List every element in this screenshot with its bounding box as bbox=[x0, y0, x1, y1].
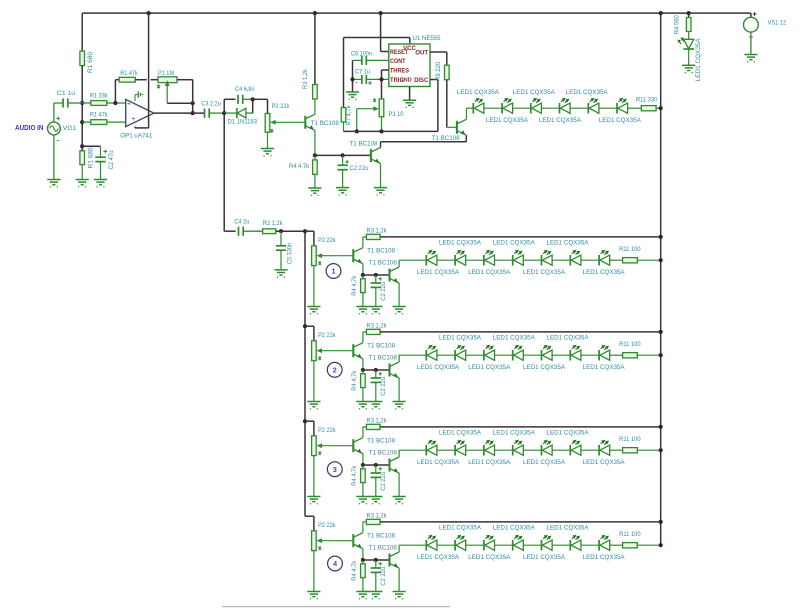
transistor T1 BC108 (row 4 B) bbox=[369, 544, 399, 568]
LED LED1 CQX35A (row 4 #6) bbox=[570, 535, 599, 551]
transistor T1 BC108 (row 1 B) bbox=[369, 259, 399, 283]
wire bus branch row 1 bbox=[303, 229, 314, 246]
node detector input bbox=[222, 111, 226, 115]
svg-text:R4 560: R4 560 bbox=[673, 15, 680, 34]
svg-text:VS1 12: VS1 12 bbox=[768, 19, 787, 26]
IC U1 NE555 bbox=[389, 35, 441, 86]
svg-text:T1 BC108: T1 BC108 bbox=[432, 135, 460, 142]
transistor T1 BC108 (tone driver) bbox=[305, 114, 339, 130]
resistor R4 4,7k (row 1) bbox=[351, 275, 365, 307]
svg-text:LED1 CQX35A: LED1 CQX35A bbox=[566, 89, 608, 96]
LED LED1 CQX35A (row 1 #3) bbox=[484, 250, 513, 266]
node feedback junction bbox=[113, 101, 117, 105]
svg-text:LED1 CQX35A: LED1 CQX35A bbox=[417, 459, 459, 466]
capacitor C2 22u (row 3) bbox=[371, 465, 387, 497]
svg-text:LED1 CQX35A: LED1 CQX35A bbox=[439, 430, 481, 437]
svg-text:LED1 CQX35A: LED1 CQX35A bbox=[513, 89, 555, 96]
wire R3 to rail row 1 bbox=[380, 235, 663, 239]
svg-text:C7 1u: C7 1u bbox=[355, 68, 370, 75]
svg-text:OUT: OUT bbox=[415, 50, 428, 57]
wire op-amp V- supply from rail bbox=[135, 11, 151, 128]
svg-text:T1 BC108: T1 BC108 bbox=[311, 120, 339, 127]
potentiometer P2 22k (row 1) bbox=[312, 237, 336, 306]
ground emitter B row 4 bbox=[393, 592, 406, 600]
ground power LED bbox=[682, 65, 695, 73]
LED LED1 CQX35A (row 3 #3) bbox=[484, 440, 513, 456]
wire base line row 1 bbox=[363, 273, 389, 277]
LED LED1 CQX35A (row 1 #5) bbox=[542, 250, 571, 266]
wire 555 GND pin bbox=[409, 87, 411, 101]
wire collector A to R3 row 1 bbox=[363, 237, 367, 248]
capacitor C2 22u (top) bbox=[337, 155, 368, 187]
transistor T1 BC108 (row 3 B) bbox=[369, 449, 399, 473]
capacitor C4 6,8n bbox=[235, 86, 255, 104]
svg-text:R4 4,7k: R4 4,7k bbox=[351, 275, 358, 296]
svg-text:C3 2,2u: C3 2,2u bbox=[201, 101, 221, 108]
wire node riser to C4 6,8n row bbox=[224, 99, 235, 113]
LED LED1 CQX35A (row 1 #6) bbox=[570, 250, 599, 266]
svg-text:+: + bbox=[131, 116, 135, 123]
wire THRES to P3 bbox=[379, 70, 388, 99]
wire collector A to R3 row 2 bbox=[363, 332, 367, 343]
svg-text:LED1 CQX35A: LED1 CQX35A bbox=[695, 38, 702, 81]
svg-text:C2 22u: C2 22u bbox=[380, 377, 387, 396]
LED LED1 CQX35A (row 2 #4) bbox=[513, 345, 542, 361]
wire rail drop to R3 1,2k (top) bbox=[313, 11, 317, 85]
labels LED row 4 below bbox=[417, 554, 625, 561]
svg-text:AUDIO IN: AUDIO IN bbox=[15, 123, 44, 132]
svg-text:C6 100n: C6 100n bbox=[351, 50, 372, 57]
resistor R1 680 (bottom) bbox=[80, 147, 95, 179]
svg-text:LED1 CQX35A: LED1 CQX35A bbox=[493, 240, 535, 247]
wire wiper to base row 2 bbox=[322, 350, 352, 352]
transistor T1 BC108 (row 1 A) bbox=[353, 247, 395, 263]
transistor T1 BC108 (row 2 A) bbox=[353, 342, 395, 358]
wire detector node down to filter row bbox=[224, 113, 236, 231]
labels LED row 2 above bbox=[439, 335, 589, 342]
svg-text:CONT: CONT bbox=[390, 58, 406, 65]
svg-text:LED1 CQX35A: LED1 CQX35A bbox=[523, 364, 565, 371]
svg-text:P2 22k: P2 22k bbox=[272, 103, 290, 110]
wire base line row 2 bbox=[363, 368, 389, 372]
transistor T1 BC108 (LED row driver) bbox=[432, 119, 467, 142]
wire +12V right rail bbox=[659, 11, 663, 545]
wire R2 to bus node bbox=[276, 229, 305, 233]
svg-text:LED1 CQX35A: LED1 CQX35A bbox=[439, 240, 481, 247]
resistor R7 4,7k bbox=[341, 105, 352, 131]
svg-text:T1 BC108: T1 BC108 bbox=[369, 259, 397, 266]
svg-text:THRES: THRES bbox=[390, 67, 409, 74]
svg-text:LED1 CQX35A: LED1 CQX35A bbox=[468, 554, 510, 561]
wire emitter B to ground row 2 bbox=[398, 378, 400, 402]
svg-text:LED1 CQX35A: LED1 CQX35A bbox=[599, 117, 641, 124]
svg-text:R3 1,2k: R3 1,2k bbox=[302, 68, 309, 89]
LED LED1 CQX35A (row 3 #7) bbox=[599, 440, 610, 456]
resistor R1 47k (feedback) bbox=[119, 70, 138, 82]
svg-text:R11 100: R11 100 bbox=[619, 246, 641, 253]
ground P2 row 4 bbox=[307, 592, 320, 600]
wire R3 to rail row 2 bbox=[380, 330, 663, 334]
resistor R1 47k (input) bbox=[82, 111, 126, 124]
resistor R11 330 bbox=[628, 97, 661, 111]
svg-text:1: 1 bbox=[331, 267, 335, 276]
svg-text:T1 BC108: T1 BC108 bbox=[367, 532, 395, 539]
svg-text:LED1 CQX35A: LED1 CQX35A bbox=[539, 117, 581, 124]
wire collector A to R3 row 3 bbox=[363, 427, 367, 438]
capacitor C5 330n bbox=[276, 231, 294, 270]
ground C2 row 3 bbox=[369, 497, 382, 505]
LED LED1 CQX35A (row 4 #5) bbox=[542, 535, 571, 551]
svg-text:R11 330: R11 330 bbox=[636, 97, 658, 104]
svg-text:LED1 CQX35A: LED1 CQX35A bbox=[493, 525, 535, 532]
svg-text:R7 4,7k: R7 4,7k bbox=[345, 105, 352, 126]
wire VCC branch bbox=[344, 38, 410, 108]
LED LED1 CQX35A (row0 #6) bbox=[617, 98, 628, 114]
ground C5 bbox=[274, 270, 287, 278]
wire wiper to base row 4 bbox=[322, 540, 352, 542]
wire collector B to LED row 4 bbox=[399, 545, 426, 552]
LED LED1 CQX35A (row 1 #7) bbox=[599, 250, 610, 266]
ground C2 row 1 bbox=[369, 307, 382, 315]
svg-text:R4 4,7k: R4 4,7k bbox=[351, 560, 358, 581]
svg-text:C1 1u: C1 1u bbox=[57, 90, 75, 97]
svg-text:LED1 CQX35A: LED1 CQX35A bbox=[583, 459, 625, 466]
resistor R2 1,2k bbox=[263, 220, 284, 234]
wire collector B to LED row 1 bbox=[399, 260, 426, 267]
labels LED row 4 above bbox=[439, 525, 589, 532]
svg-text:LED1 CQX35A: LED1 CQX35A bbox=[547, 525, 589, 532]
resistor R8 220 bbox=[435, 62, 449, 81]
ground R4 (top) bbox=[308, 188, 321, 196]
wire T1b collector to LED-driver emitter bbox=[381, 135, 467, 147]
svg-text:C2 22u: C2 22u bbox=[380, 282, 387, 301]
LED LED1 CQX35A (row 4 #4) bbox=[513, 535, 542, 551]
svg-text:LED1 CQX35A: LED1 CQX35A bbox=[468, 269, 510, 276]
svg-text:LED1 CQX35A: LED1 CQX35A bbox=[547, 240, 589, 247]
wire bus branch row 3 bbox=[303, 419, 314, 436]
resistor R4 4,7k (top) bbox=[289, 155, 317, 188]
svg-text:LED1 CQX35A: LED1 CQX35A bbox=[439, 525, 481, 532]
wire emitter B to ground row 4 bbox=[398, 568, 400, 592]
LED LED1 CQX35A (power) bbox=[677, 37, 702, 81]
svg-text:R8 220: R8 220 bbox=[435, 62, 442, 81]
resistor R11 100 (row 1) bbox=[610, 246, 663, 263]
svg-text:T1 BC108: T1 BC108 bbox=[367, 437, 395, 444]
svg-text:LED1 CQX35A: LED1 CQX35A bbox=[523, 554, 565, 561]
node channel number 2 bbox=[327, 362, 342, 377]
labels LED row0 below bbox=[486, 117, 641, 124]
svg-text:LED1 CQX35A: LED1 CQX35A bbox=[583, 269, 625, 276]
wire P1 right terminal down to output bbox=[177, 80, 195, 116]
ground 555 bbox=[403, 100, 416, 108]
wire emitter A to node row 4 bbox=[361, 549, 365, 562]
LED LED1 CQX35A (row0 #2) bbox=[502, 98, 531, 114]
LED LED1 CQX35A (row 3 #4) bbox=[513, 440, 542, 456]
svg-text:U1 NE555: U1 NE555 bbox=[413, 35, 441, 42]
LED LED1 CQX35A (row0 #3) bbox=[531, 98, 560, 114]
LED LED1 CQX35A (row 3 #2) bbox=[455, 440, 484, 456]
svg-text:R1 33k: R1 33k bbox=[90, 92, 108, 99]
capacitor C2 22u (row 2) bbox=[371, 370, 387, 402]
svg-text:R11 100: R11 100 bbox=[619, 341, 641, 348]
ground C2 (top) bbox=[336, 188, 349, 196]
potentiometer P2 22k (detector) bbox=[265, 103, 290, 149]
svg-text:T1 BC108: T1 BC108 bbox=[369, 544, 397, 551]
svg-text:R3 1,2k: R3 1,2k bbox=[367, 227, 388, 234]
svg-text:T1 BC108: T1 BC108 bbox=[369, 449, 397, 456]
wire +12V top rail bbox=[82, 12, 751, 14]
wire driver collector to LED chain bbox=[467, 108, 474, 119]
ground C6 C7 bbox=[346, 92, 359, 100]
svg-text:LED1 CQX35A: LED1 CQX35A bbox=[486, 117, 528, 124]
capacitor C4 2u bbox=[234, 219, 262, 236]
capacitor C6 100n bbox=[351, 50, 389, 65]
ground T1b emitter bbox=[374, 188, 387, 196]
wire emitter A to node row 1 bbox=[361, 264, 365, 277]
svg-text:LED1 CQX35A: LED1 CQX35A bbox=[493, 335, 535, 342]
transistor T1 BC108 (row 4 A) bbox=[353, 532, 395, 548]
svg-text:T1 BC108: T1 BC108 bbox=[367, 247, 395, 254]
LED LED1 CQX35A (row 2 #5) bbox=[542, 345, 571, 361]
transistor T1 BC108 (astable gate) bbox=[350, 141, 381, 164]
ground emitter B row 2 bbox=[393, 402, 406, 410]
ground C2 row 2 bbox=[369, 402, 382, 410]
wire T1 emitter to R4 node bbox=[313, 130, 317, 157]
svg-text:T1 BC108: T1 BC108 bbox=[350, 141, 378, 148]
svg-text:R3 1,2k: R3 1,2k bbox=[367, 417, 388, 424]
potentiometer P1 1M bbox=[157, 70, 177, 103]
transistor T1 BC108 (row 3 A) bbox=[353, 437, 395, 453]
svg-text:P1 1M: P1 1M bbox=[158, 70, 174, 77]
label AUDIO IN bbox=[15, 123, 44, 132]
svg-text:LED1 CQX35A: LED1 CQX35A bbox=[468, 364, 510, 371]
LED LED1 CQX35A (row 4 #7) bbox=[599, 535, 610, 551]
wire R3 to rail row 4 bbox=[380, 520, 663, 524]
resistor R4 4,7k (row 2) bbox=[351, 370, 365, 402]
svg-text:VG1: VG1 bbox=[63, 125, 77, 132]
svg-text:LED1 CQX35A: LED1 CQX35A bbox=[523, 459, 565, 466]
svg-text:R1 47k: R1 47k bbox=[120, 70, 138, 77]
labels LED row 1 below bbox=[417, 269, 625, 276]
ground emitter B row 1 bbox=[393, 307, 406, 315]
svg-text:R3 1,2k: R3 1,2k bbox=[367, 322, 388, 329]
svg-text:LED1 CQX35A: LED1 CQX35A bbox=[523, 269, 565, 276]
resistor R1 33k bbox=[82, 92, 126, 105]
wire rail to R4 560 bbox=[687, 11, 691, 18]
svg-text:R11 100: R11 100 bbox=[619, 531, 641, 538]
ground P2 row 1 bbox=[307, 307, 320, 315]
svg-text:LED1 CQX35A: LED1 CQX35A bbox=[457, 89, 499, 96]
wire rail drop to R1 680 top bbox=[81, 13, 83, 51]
resistor R11 100 (row 3) bbox=[610, 436, 663, 453]
svg-text:LED1 CQX35A: LED1 CQX35A bbox=[417, 269, 459, 276]
labels LED row0 above bbox=[457, 89, 608, 96]
LED LED1 CQX35A (row 3 #5) bbox=[542, 440, 571, 456]
LED LED1 CQX35A (row 2 #6) bbox=[570, 345, 599, 361]
wire feedback to P1 (gap at supply crossing) bbox=[135, 79, 158, 81]
svg-text:D1 1N1183: D1 1N1183 bbox=[228, 119, 258, 126]
wire T1b emitter to ground bbox=[380, 164, 382, 188]
svg-text:P2 22k: P2 22k bbox=[318, 427, 336, 434]
node input bias junctions bbox=[80, 101, 84, 148]
capacitor C2 22u (row 4) bbox=[371, 560, 387, 592]
svg-text:C2 22u: C2 22u bbox=[380, 472, 387, 491]
node channel number 4 bbox=[328, 556, 343, 571]
node channel number 1 bbox=[326, 264, 341, 279]
source VS1 12 bbox=[744, 12, 787, 54]
wire P3 wiper tie-down bbox=[355, 109, 374, 134]
LED LED1 CQX35A (row 2 #1) bbox=[426, 345, 455, 361]
svg-text:RESET: RESET bbox=[390, 49, 408, 56]
resistor R3 1,2k (row 3) bbox=[366, 417, 387, 429]
svg-text:C4 2u: C4 2u bbox=[234, 219, 249, 226]
op-amp OP1 uA741 bbox=[120, 99, 154, 139]
wire channel bus rail bbox=[304, 231, 306, 516]
LED LED1 CQX35A (row 2 #2) bbox=[455, 345, 484, 361]
wire DISC to timing node bbox=[344, 80, 438, 134]
LED LED1 CQX35A (row 2 #7) bbox=[599, 345, 610, 361]
resistor R3 1,2k (top) bbox=[302, 68, 317, 114]
LED LED1 CQX35A (row 4 #2) bbox=[455, 535, 484, 551]
capacitor C1 1u bbox=[54, 90, 82, 107]
svg-text:R1 680: R1 680 bbox=[88, 147, 95, 168]
LED LED1 CQX35A (row 4 #3) bbox=[484, 535, 513, 551]
svg-text:P3 10: P3 10 bbox=[389, 111, 404, 118]
wire collector B to LED row 3 bbox=[399, 450, 426, 457]
wire OUT to R8 bbox=[430, 52, 447, 65]
svg-text:T1 BC108: T1 BC108 bbox=[369, 354, 397, 361]
svg-text:LED1 CQX35A: LED1 CQX35A bbox=[417, 364, 459, 371]
potentiometer P2 22k (row 2) bbox=[312, 332, 336, 401]
svg-text:LED1 CQX35A: LED1 CQX35A bbox=[439, 335, 481, 342]
wire R8 to LED driver base bbox=[447, 80, 456, 128]
wire to P2 22k (detector) bbox=[253, 99, 268, 113]
window edge artifact bottom bbox=[222, 606, 450, 608]
wire D1 to C4 junction bbox=[251, 97, 255, 113]
wire feedback riser bbox=[115, 80, 118, 103]
ground C2 47u bbox=[94, 180, 107, 188]
svg-text:R1 47k: R1 47k bbox=[90, 111, 108, 118]
wire emitter B to ground row 3 bbox=[398, 473, 400, 497]
ground R4 row 2 bbox=[356, 402, 369, 410]
svg-text:R4 4,7k: R4 4,7k bbox=[289, 163, 310, 170]
wire bus branch row 4 bbox=[305, 516, 314, 531]
wire emitter node to T1b base bbox=[315, 153, 370, 157]
LED LED1 CQX35A (row 3 #6) bbox=[570, 440, 599, 456]
labels LED row 2 below bbox=[417, 364, 625, 371]
potentiometer P3 10 bbox=[373, 98, 404, 131]
capacitor C2 47u bbox=[82, 146, 115, 179]
transistor T1 BC108 (row 2 B) bbox=[369, 354, 399, 378]
svg-text:LED1 CQX35A: LED1 CQX35A bbox=[417, 554, 459, 561]
op-amp V+ pin symbol bbox=[135, 91, 143, 101]
resistor R11 100 (row 4) bbox=[610, 531, 663, 548]
wire wiper to base row 1 bbox=[322, 255, 352, 257]
svg-text:R2 1,2k: R2 1,2k bbox=[263, 220, 284, 227]
svg-text:C2 47u: C2 47u bbox=[108, 150, 115, 169]
wire base line row 4 bbox=[363, 558, 389, 562]
ground P2 row 3 bbox=[307, 497, 320, 505]
svg-text:R4 4,7k: R4 4,7k bbox=[351, 465, 358, 486]
wire bus branch row 2 bbox=[303, 324, 314, 341]
LED LED1 CQX35A (row 2 #3) bbox=[484, 345, 513, 361]
wire emitter A to node row 2 bbox=[361, 359, 365, 372]
wire wiper to base row 3 bbox=[322, 445, 352, 447]
resistor R3 1,2k (row 1) bbox=[366, 227, 387, 239]
svg-text:P2 22k: P2 22k bbox=[318, 237, 336, 244]
resistor R1 680 (top) bbox=[80, 51, 94, 73]
ground VS1 bbox=[744, 55, 757, 63]
LED LED1 CQX35A (row 1 #4) bbox=[513, 250, 542, 266]
labels LED row 3 above bbox=[439, 430, 589, 437]
svg-text:LED1 CQX35A: LED1 CQX35A bbox=[583, 554, 625, 561]
LED LED1 CQX35A (row0 #4) bbox=[560, 98, 589, 114]
svg-text:OP1 uA741: OP1 uA741 bbox=[120, 133, 152, 140]
svg-text:3: 3 bbox=[333, 465, 337, 474]
source VG1 audio input bbox=[48, 103, 77, 180]
ground C2 row 4 bbox=[369, 592, 382, 600]
ground P2 row 2 bbox=[307, 402, 320, 410]
svg-text:T1 BC108: T1 BC108 bbox=[367, 342, 395, 349]
svg-text:R1 680: R1 680 bbox=[87, 52, 94, 73]
svg-text:C2 22u: C2 22u bbox=[350, 165, 369, 172]
svg-text:GND: GND bbox=[400, 77, 412, 83]
svg-text:LED1 CQX35A: LED1 CQX35A bbox=[547, 430, 589, 437]
wire R1 680 to input node column bbox=[81, 66, 83, 151]
resistor R4 560 bbox=[673, 15, 691, 39]
svg-text:P2 22k: P2 22k bbox=[318, 522, 336, 529]
LED LED1 CQX35A (row 4 #1) bbox=[426, 535, 455, 551]
node channel number 3 bbox=[327, 462, 342, 477]
wire rail drop to 555 supply bbox=[379, 11, 389, 52]
labels LED row 3 below bbox=[417, 459, 625, 466]
ground R4 row 1 bbox=[356, 307, 369, 315]
diode D1 1N1183 bbox=[224, 108, 257, 126]
svg-text:LED1 CQX35A: LED1 CQX35A bbox=[468, 459, 510, 466]
ground emitter B row 3 bbox=[393, 497, 406, 505]
LED LED1 CQX35A (row 1 #2) bbox=[455, 250, 484, 266]
ground VG1 bbox=[47, 180, 60, 188]
resistor R4 4,7k (row 3) bbox=[351, 465, 365, 497]
LED LED1 CQX35A (row0 #1) bbox=[473, 98, 502, 114]
svg-text:C4 6,8n: C4 6,8n bbox=[235, 86, 255, 93]
ground R4 row 3 bbox=[356, 497, 369, 505]
svg-text:C5 330n: C5 330n bbox=[287, 243, 294, 264]
wire base line row 3 bbox=[363, 463, 389, 467]
ground P2 detector bbox=[261, 149, 274, 157]
labels LED row 1 above bbox=[439, 240, 589, 247]
resistor R3 1,2k (row 4) bbox=[366, 512, 387, 524]
resistor R3 1,2k (row 2) bbox=[366, 322, 387, 334]
svg-text:LED1 CQX35A: LED1 CQX35A bbox=[547, 335, 589, 342]
svg-text:LED1 CQX35A: LED1 CQX35A bbox=[583, 364, 625, 371]
wire emitter B to ground row 1 bbox=[398, 283, 400, 307]
LED LED1 CQX35A (row0 #5) bbox=[588, 98, 617, 114]
LED LED1 CQX35A (row 3 #1) bbox=[426, 440, 455, 456]
svg-text:R11 100: R11 100 bbox=[619, 436, 641, 443]
ground R4 row 4 bbox=[356, 592, 369, 600]
svg-text:R3 1,2k: R3 1,2k bbox=[367, 512, 388, 519]
capacitor C2 22u (row 1) bbox=[371, 275, 387, 307]
svg-text:P2 22k: P2 22k bbox=[318, 332, 336, 339]
potentiometer P2 22k (row 3) bbox=[312, 427, 336, 496]
ground R1 680 bottom bbox=[76, 180, 89, 188]
capacitor C7 1u bbox=[353, 68, 389, 85]
LED LED1 CQX35A (row 1 #1) bbox=[426, 250, 455, 266]
potentiometer P2 22k (row 4) bbox=[312, 522, 336, 591]
resistor R11 100 (row 2) bbox=[610, 341, 663, 358]
wire R3 to rail row 3 bbox=[380, 425, 663, 429]
